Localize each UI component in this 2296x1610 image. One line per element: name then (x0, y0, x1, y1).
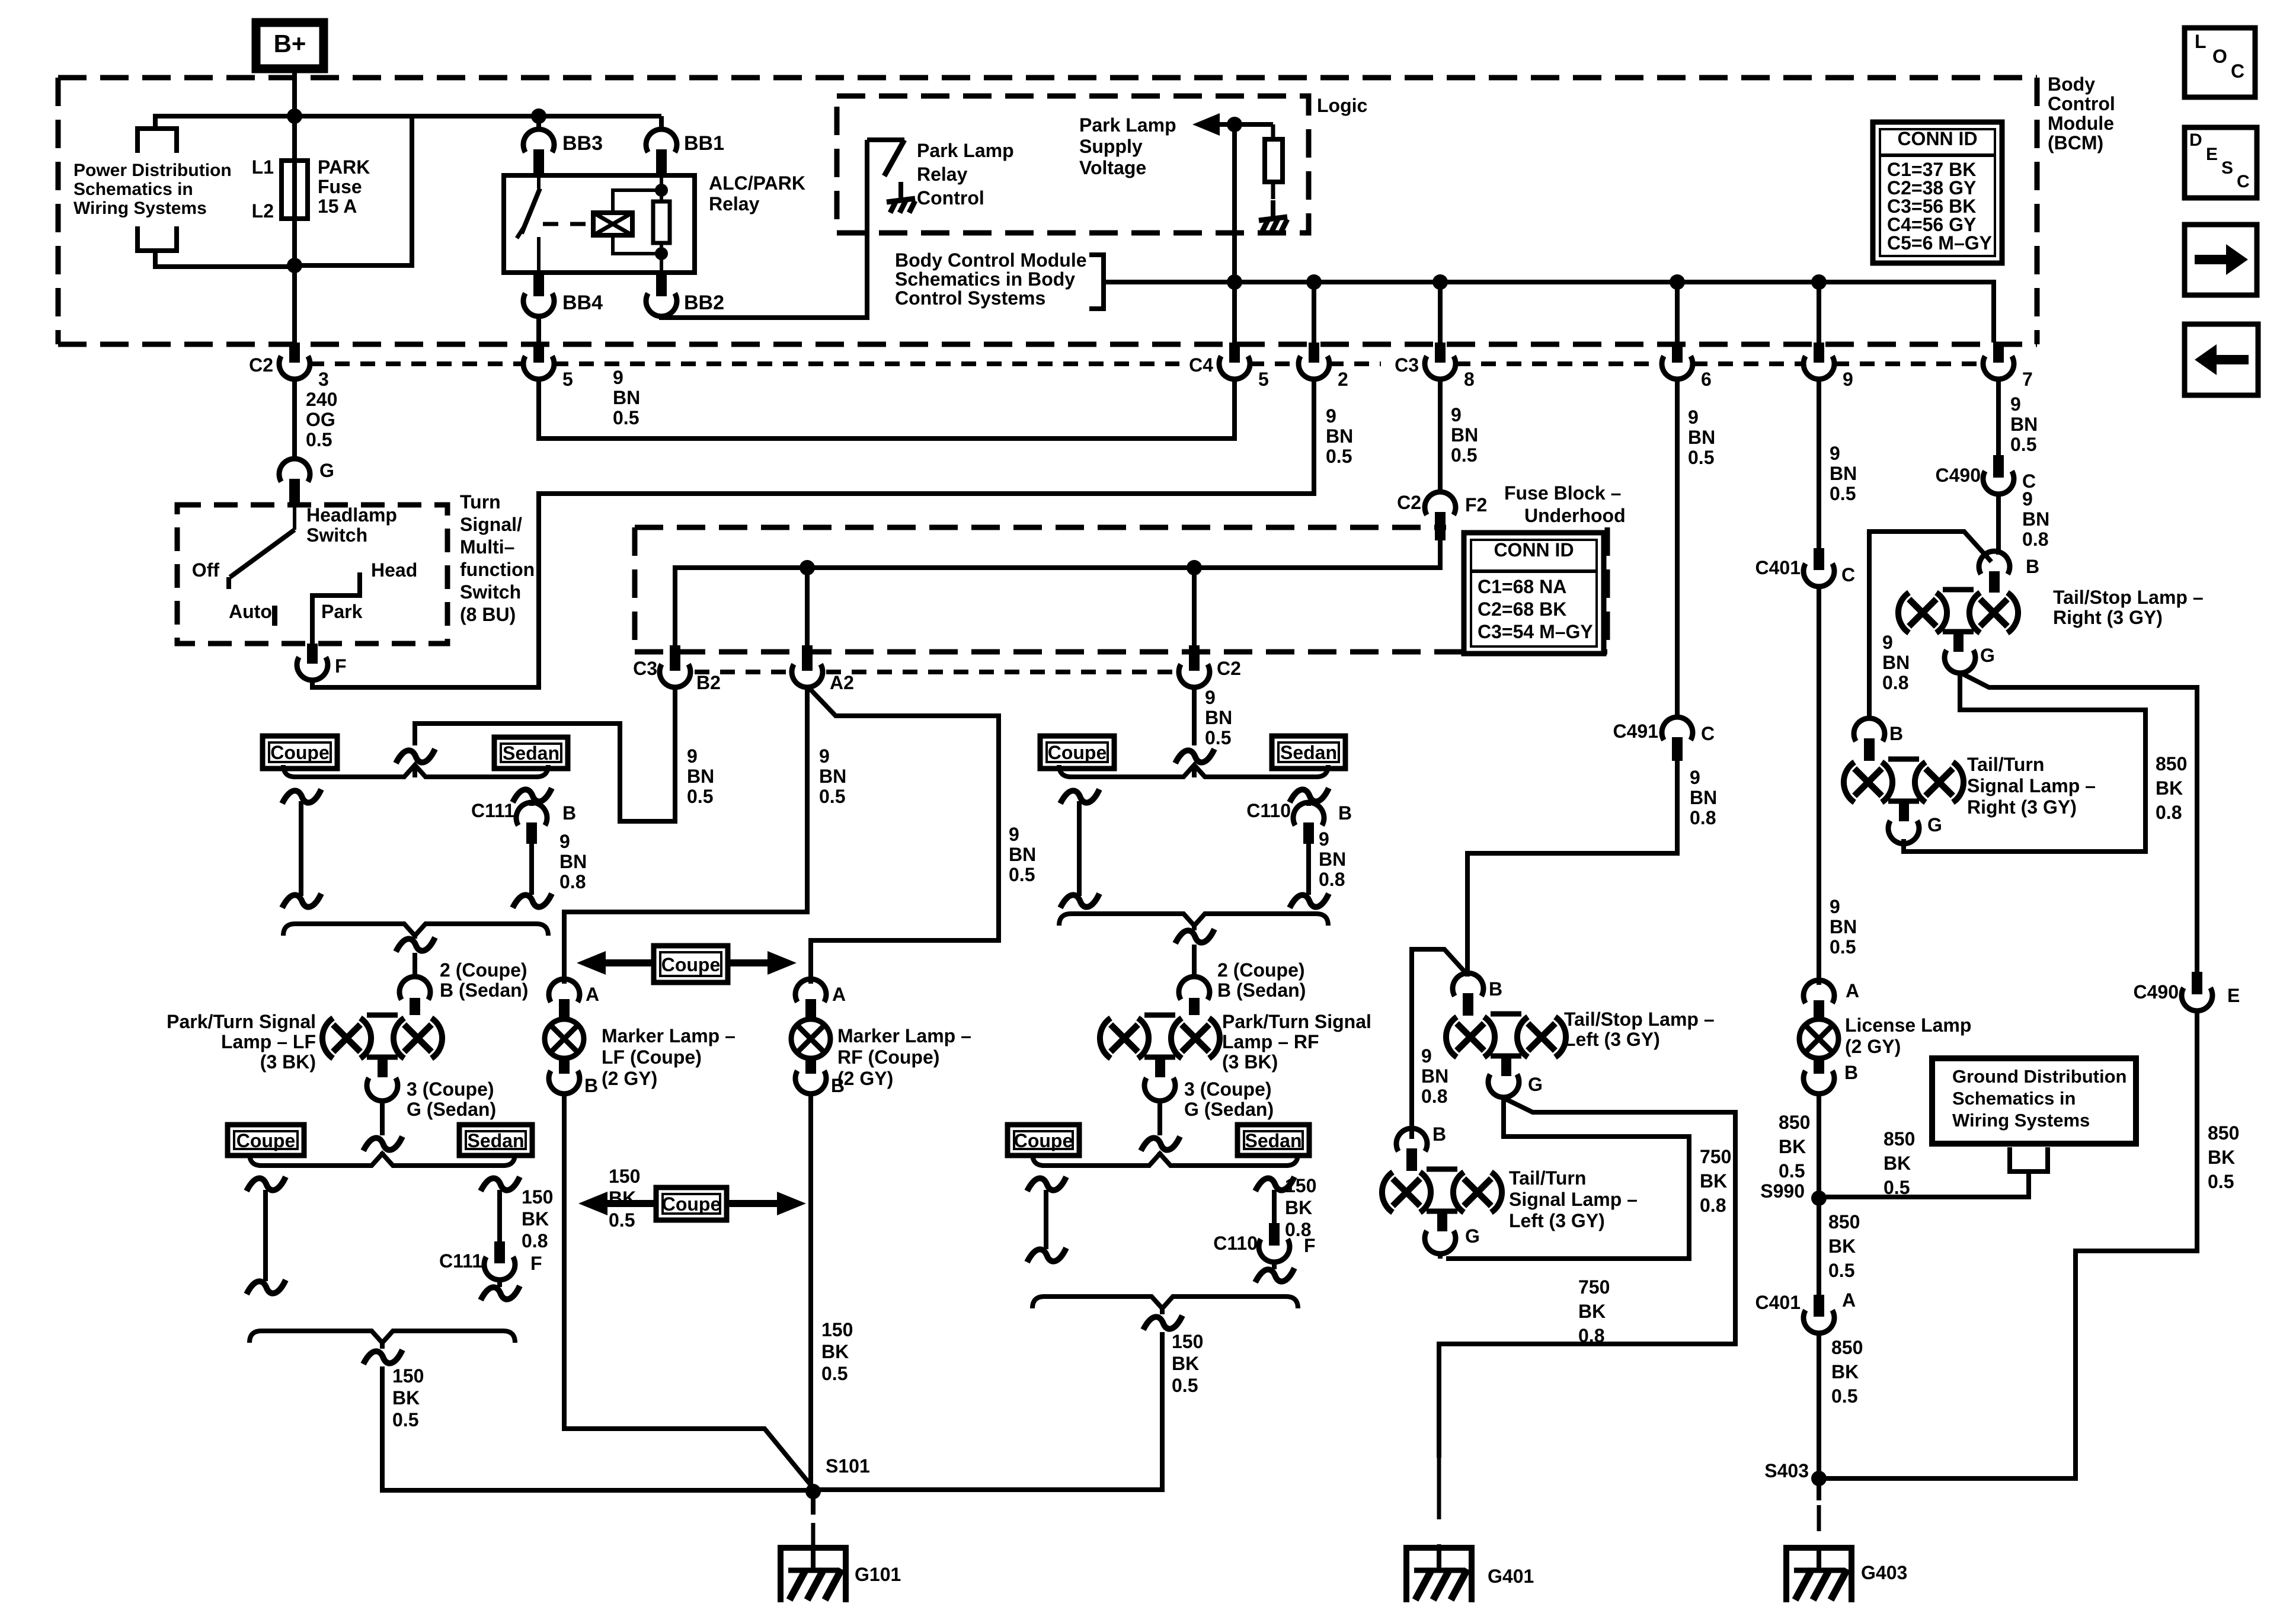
svg-text:B (Sedan): B (Sedan) (1217, 980, 1306, 1001)
svg-text:BN: BN (1205, 707, 1232, 728)
splice S990 (1811, 1190, 1827, 1206)
back arrow box (2185, 324, 2258, 395)
svg-text:0.5: 0.5 (1830, 936, 1856, 958)
wire pin7 to C490 C (1996, 379, 2001, 455)
wire break LF merge (396, 937, 435, 952)
connector A2 (802, 645, 813, 671)
wire B2 to LF group (415, 687, 675, 821)
svg-text:3 (Coupe): 3 (Coupe) (407, 1078, 494, 1100)
connector G park/turn LF (367, 1078, 398, 1101)
svg-text:Ground Distribution: Ground Distribution (1952, 1066, 2126, 1087)
relay coil (bowtie box) (593, 213, 632, 235)
brace LF lower merge (283, 924, 548, 936)
svg-text:function: function (460, 559, 535, 580)
variant box Coupe (LF upper) (263, 736, 337, 769)
svg-text:Park/Turn Signal: Park/Turn Signal (1222, 1011, 1371, 1032)
svg-text:850: 850 (1884, 1128, 1915, 1150)
svg-text:B: B (1889, 723, 1903, 744)
svg-text:BK: BK (2208, 1147, 2235, 1168)
wire pin8 to fuse F2 (1438, 379, 1443, 492)
svg-text:(2 GY): (2 GY) (1845, 1036, 1901, 1057)
power distribution reference bracket (155, 116, 295, 129)
svg-text:BK: BK (1828, 1235, 1856, 1257)
svg-text:Marker Lamp –: Marker Lamp – (602, 1025, 736, 1046)
lamp Tail/Stop Lamp Left (1446, 1017, 1457, 1057)
svg-text:(8 BU): (8 BU) (460, 604, 516, 625)
CONN ID table (fuse block) (1464, 533, 1604, 654)
lamp Park/Turn Signal Lamp LF (322, 1018, 333, 1058)
svg-text:(2 GY): (2 GY) (602, 1068, 657, 1089)
svg-text:8: 8 (1464, 369, 1475, 390)
svg-text:C1=68 NA: C1=68 NA (1478, 576, 1566, 597)
svg-text:9: 9 (613, 367, 623, 388)
svg-text:BN: BN (1882, 652, 1910, 673)
ground drop G403 (1817, 1478, 1821, 1500)
svg-text:B: B (584, 1075, 598, 1096)
connector B tail/stop left (1453, 973, 1483, 996)
svg-text:BN: BN (2010, 414, 2038, 435)
brace RF lower merge (1059, 914, 1328, 926)
variant box Sedan (LF lower) (459, 1125, 532, 1156)
svg-text:Signal/: Signal/ (460, 514, 522, 535)
wire fuse-top to relay feed (295, 114, 412, 119)
junction fuse block C2 (1187, 560, 1202, 575)
ground G101 (781, 1548, 846, 1602)
variant box Coupe (LF lower) (228, 1125, 304, 1156)
svg-text:Headlamp: Headlamp (306, 504, 397, 526)
svg-text:BB2: BB2 (684, 292, 724, 314)
svg-text:BK: BK (1285, 1197, 1312, 1218)
svg-text:Signal Lamp –: Signal Lamp – (1509, 1189, 1638, 1210)
variant box Sedan (RF upper) (1272, 736, 1345, 769)
connector pin 6 (1672, 343, 1683, 363)
junction at fuse top (287, 108, 302, 124)
wire C490 C to tail/stop right B (1996, 494, 2001, 555)
svg-text:0.8: 0.8 (1578, 1325, 1604, 1346)
connector pin 7 (1993, 343, 2004, 363)
svg-text:0.8: 0.8 (1882, 672, 1908, 693)
svg-text:G403: G403 (1861, 1562, 1907, 1583)
ground distribution schematics box (1932, 1058, 2136, 1144)
svg-text:Head: Head (371, 559, 417, 581)
svg-text:G401: G401 (1488, 1566, 1534, 1587)
wire S990 to C401 A (1817, 1198, 1821, 1295)
svg-text:BB1: BB1 (684, 132, 724, 155)
svg-text:750: 750 (1700, 1146, 1731, 1167)
svg-text:Park/Turn Signal: Park/Turn Signal (167, 1011, 316, 1032)
svg-text:Coupe: Coupe (236, 1130, 296, 1151)
svg-text:0.5: 0.5 (2208, 1171, 2234, 1192)
svg-text:CONN ID: CONN ID (1494, 539, 1574, 561)
connector C2 pin 3 (289, 343, 300, 363)
wire break LF feed (396, 749, 435, 763)
svg-text:150: 150 (1285, 1175, 1316, 1196)
headlamp switch dashed box (177, 505, 447, 644)
wire BB2 to park lamp relay control (661, 140, 867, 318)
svg-text:150: 150 (1172, 1331, 1203, 1352)
connector pin 5 (533, 343, 544, 363)
svg-text:O: O (2212, 46, 2227, 67)
wire C401 to license lamp (1817, 587, 1821, 985)
svg-text:BK: BK (392, 1387, 420, 1409)
svg-text:Sedan: Sedan (467, 1130, 524, 1151)
wire C2 to RF group (1192, 687, 1197, 745)
svg-text:G: G (1980, 645, 1995, 666)
connector A license lamp (1803, 980, 1834, 1003)
svg-text:Sedan: Sedan (1245, 1130, 1302, 1151)
svg-text:Module: Module (2048, 113, 2114, 134)
svg-text:BN: BN (819, 766, 846, 787)
svg-text:PARK: PARK (318, 156, 370, 178)
ground G403 (1786, 1548, 1851, 1602)
connector C401 C (1814, 548, 1824, 570)
svg-text:Schematics in: Schematics in (1952, 1088, 2076, 1109)
svg-text:150: 150 (522, 1186, 553, 1208)
brace LF upper split (283, 765, 548, 777)
svg-text:(3 BK): (3 BK) (1222, 1051, 1278, 1073)
variant arrow box Coupe (lower) (656, 1188, 727, 1220)
svg-text:S101: S101 (826, 1455, 870, 1477)
fuse block internal wire (675, 540, 1440, 645)
svg-text:A: A (1842, 1289, 1856, 1311)
CONN ID table (BCM) (1873, 122, 2002, 263)
svg-text:Coupe: Coupe (662, 1193, 721, 1215)
splice S403 (1811, 1471, 1827, 1486)
relay coil loop (613, 190, 661, 213)
fuse block underhood dashed box (635, 525, 1446, 530)
svg-text:Schematics in: Schematics in (73, 180, 193, 199)
wire break RF ground (1143, 1315, 1182, 1330)
svg-text:2 (Coupe): 2 (Coupe) (440, 959, 527, 981)
svg-text:A: A (1846, 980, 1859, 1001)
junction park lamp supply (1227, 117, 1242, 132)
connector G park/turn RF (1144, 1078, 1175, 1101)
svg-text:5: 5 (1258, 369, 1269, 390)
wire marker LF to S101 (564, 1094, 813, 1488)
svg-text:850: 850 (1831, 1337, 1863, 1358)
connector B park/turn RF (1179, 977, 1210, 1000)
svg-text:CONN ID: CONN ID (1897, 128, 1977, 149)
svg-text:BN: BN (2022, 508, 2049, 530)
wire A2 branch to marker RF (810, 689, 999, 984)
svg-text:9: 9 (559, 831, 570, 852)
park/head contact (312, 572, 360, 644)
svg-text:0.5: 0.5 (306, 429, 332, 450)
connector G headlamp switch (279, 459, 310, 482)
svg-text:Supply: Supply (1079, 136, 1143, 157)
svg-text:Tail/Stop Lamp –: Tail/Stop Lamp – (2053, 587, 2204, 608)
headlamp switch blade (293, 505, 296, 530)
svg-text:0.5: 0.5 (1172, 1375, 1198, 1396)
svg-text:BN: BN (687, 766, 714, 787)
junction bus pin8 (1432, 274, 1448, 290)
svg-text:0.5: 0.5 (609, 1209, 635, 1231)
svg-text:RF (Coupe): RF (Coupe) (837, 1046, 939, 1068)
svg-text:850: 850 (2208, 1122, 2239, 1144)
svg-text:F: F (530, 1253, 542, 1274)
relay resistor (660, 175, 663, 201)
svg-text:9: 9 (1421, 1045, 1432, 1067)
svg-text:Park: Park (321, 601, 363, 622)
svg-text:Park Lamp: Park Lamp (917, 140, 1014, 161)
lamp Tail/Stop Lamp Right (1898, 593, 1909, 633)
svg-text:LF (Coupe): LF (Coupe) (602, 1046, 702, 1068)
svg-text:240: 240 (306, 389, 337, 410)
svg-text:150: 150 (392, 1365, 424, 1387)
svg-text:Turn: Turn (460, 491, 501, 513)
BCM internal bus wire (1104, 282, 1994, 343)
svg-text:2: 2 (1338, 369, 1348, 390)
svg-text:G101: G101 (855, 1564, 901, 1585)
svg-text:C2: C2 (249, 354, 273, 376)
svg-text:BK: BK (1779, 1136, 1806, 1157)
svg-text:9: 9 (687, 745, 698, 767)
svg-text:License Lamp: License Lamp (1845, 1014, 1971, 1036)
svg-text:Power Distribution: Power Distribution (73, 161, 232, 180)
svg-text:BN: BN (1830, 463, 1857, 484)
svg-text:Right (3 GY): Right (3 GY) (2053, 607, 2163, 628)
wire RF lamp G down (1157, 1101, 1162, 1135)
svg-text:G: G (319, 460, 334, 481)
brace RF bottom merge (1032, 1297, 1298, 1308)
svg-text:Wiring Systems: Wiring Systems (1952, 1110, 2090, 1131)
svg-text:9: 9 (1319, 828, 1329, 850)
connector A marker RF (795, 979, 826, 1002)
lamp Tail/Turn Signal Lamp Left (1382, 1172, 1393, 1212)
svg-text:Coupe: Coupe (1014, 1130, 1073, 1151)
svg-text:Tail/Turn: Tail/Turn (1967, 754, 2044, 775)
arrow park lamp supply (1192, 113, 1220, 136)
svg-text:B: B (1489, 978, 1502, 1000)
svg-text:C110: C110 (1246, 800, 1291, 821)
connector C490 C (1993, 455, 2004, 478)
svg-text:L2: L2 (252, 200, 274, 222)
svg-text:150: 150 (821, 1319, 853, 1340)
svg-text:BK: BK (1884, 1153, 1911, 1174)
svg-text:9: 9 (1009, 824, 1019, 845)
svg-text:0.5: 0.5 (392, 1409, 418, 1430)
svg-text:A: A (832, 984, 846, 1005)
svg-text:C2=68 BK: C2=68 BK (1478, 598, 1566, 620)
BCM connector row dotted line (309, 361, 524, 366)
svg-text:BB4: BB4 (562, 292, 603, 314)
wire RF merged to S101 (813, 1332, 1162, 1490)
svg-text:0.8: 0.8 (2156, 802, 2182, 823)
svg-text:Off: Off (192, 559, 220, 581)
svg-text:Left (3 GY): Left (3 GY) (1564, 1029, 1660, 1050)
variant box Sedan (LF upper) (494, 737, 568, 769)
svg-text:9: 9 (819, 745, 830, 767)
svg-text:BK: BK (522, 1208, 549, 1230)
svg-text:0.5: 0.5 (1831, 1385, 1857, 1407)
svg-text:0.8: 0.8 (559, 871, 586, 892)
park lamp supply voltage node (1232, 124, 1237, 343)
wire pin6 to C491 (1675, 379, 1680, 718)
connector C4 pin 5 (1229, 343, 1240, 363)
svg-text:B+: B+ (274, 30, 306, 57)
svg-text:S: S (2221, 158, 2233, 178)
svg-text:850: 850 (1779, 1112, 1810, 1133)
svg-text:BN: BN (1009, 844, 1036, 865)
svg-text:BK: BK (1578, 1301, 1606, 1322)
svg-text:Voltage: Voltage (1079, 157, 1146, 178)
svg-text:G: G (1465, 1225, 1480, 1247)
connector C490 E (2192, 972, 2202, 994)
svg-text:0.8: 0.8 (1319, 869, 1345, 890)
connector C2 F2 fuse block (1425, 492, 1456, 515)
svg-text:D: D (2189, 130, 2202, 150)
coupe stub LF lower (247, 1177, 286, 1191)
wire break RF feed (1175, 749, 1214, 763)
connector B tail/stop right (1979, 551, 2010, 574)
connector G tail/turn right (1888, 821, 1919, 844)
BCM logic ground (supply voltage) (1271, 200, 1275, 217)
ground distribution bracket to S990 (2010, 1147, 2048, 1172)
wire marker RF to S101 (808, 1094, 813, 1491)
connector B marker RF (805, 1058, 816, 1074)
connector B tail/turn right (1854, 718, 1885, 741)
resistor in BCM logic (1271, 124, 1275, 139)
svg-text:Signal Lamp –: Signal Lamp – (1967, 775, 2096, 796)
connector B tail/turn left (1396, 1128, 1427, 1151)
connector A marker LF (549, 979, 580, 1002)
svg-text:Marker Lamp –: Marker Lamp – (837, 1025, 971, 1046)
brace LF bottom merge (250, 1331, 515, 1343)
svg-text:9: 9 (1830, 443, 1840, 464)
svg-text:0.5: 0.5 (687, 786, 713, 807)
branch to tail/turn left B (1412, 949, 1467, 1139)
svg-text:(BCM): (BCM) (2048, 132, 2103, 153)
connector BB2 (656, 273, 667, 296)
svg-text:Tail/Stop Lamp –: Tail/Stop Lamp – (1564, 1009, 1715, 1030)
svg-text:C490: C490 (2134, 981, 2179, 1003)
wire break LF ground (363, 1350, 402, 1364)
svg-text:(3 BK): (3 BK) (260, 1051, 316, 1073)
svg-text:0.5: 0.5 (1205, 727, 1231, 748)
svg-text:Coupe: Coupe (1048, 742, 1107, 763)
svg-text:9: 9 (1326, 405, 1336, 427)
coupe stub RF lower (1027, 1177, 1066, 1191)
wire pin2 down (1312, 379, 1316, 496)
relay switch contact (537, 175, 541, 188)
variant box Sedan (RF lower) (1237, 1125, 1309, 1156)
junction bus pin6 (1670, 274, 1685, 290)
svg-text:0.5: 0.5 (1830, 483, 1856, 504)
svg-text:C3: C3 (1395, 354, 1419, 376)
svg-text:A2: A2 (830, 672, 854, 693)
svg-text:G (Sedan): G (Sedan) (1184, 1099, 1274, 1120)
svg-text:0.5: 0.5 (2010, 434, 2036, 455)
svg-text:BN: BN (1830, 916, 1857, 937)
svg-text:S403: S403 (1764, 1460, 1809, 1481)
svg-text:B (Sedan): B (Sedan) (440, 980, 528, 1001)
svg-text:Left (3 GY): Left (3 GY) (1509, 1210, 1605, 1231)
junction at fuse bottom (287, 258, 302, 273)
svg-text:0.5: 0.5 (1828, 1260, 1854, 1281)
svg-text:Switch: Switch (460, 581, 521, 603)
junction bus C4-5 (1227, 274, 1242, 290)
svg-text:C3: C3 (633, 658, 657, 679)
svg-text:BB3: BB3 (562, 132, 603, 155)
junction fuse block A2 (800, 560, 815, 575)
svg-text:BN: BN (1326, 425, 1353, 447)
ground G401 (1406, 1548, 1472, 1602)
svg-text:9: 9 (1688, 406, 1699, 428)
svg-text:Multi–: Multi– (460, 536, 514, 558)
ground drop G401 (1437, 1458, 1441, 1493)
brace RF lower split (1032, 1154, 1298, 1166)
svg-text:Switch: Switch (306, 524, 367, 546)
svg-text:9: 9 (1451, 404, 1462, 425)
lamp Park/Turn Signal Lamp RF (1100, 1018, 1111, 1058)
connector C491 C (1662, 717, 1693, 740)
svg-text:C3=54 M–GY: C3=54 M–GY (1478, 621, 1593, 642)
sedan branch C110 B (1290, 788, 1329, 802)
Logic dashed box (837, 96, 1309, 233)
svg-text:C4: C4 (1189, 354, 1213, 376)
svg-text:9: 9 (1690, 767, 1700, 788)
connector C2 (turn signal feed) (1189, 645, 1200, 671)
svg-text:Body Control Module: Body Control Module (895, 249, 1087, 271)
wire tail/stop right G paths (1961, 673, 2197, 972)
svg-text:750: 750 (1578, 1276, 1610, 1298)
svg-text:C5=6 M–GY: C5=6 M–GY (1887, 232, 1992, 254)
svg-text:G: G (1927, 814, 1942, 836)
variant box Coupe (RF upper) (1040, 736, 1114, 769)
svg-text:(2 GY): (2 GY) (837, 1068, 893, 1089)
connector pin 9 (1814, 343, 1824, 363)
svg-text:0.8: 0.8 (1700, 1195, 1726, 1216)
svg-text:Lamp – LF: Lamp – LF (221, 1031, 316, 1052)
branch to tail/turn right B (1869, 532, 1991, 721)
connector B license lamp (1814, 1058, 1824, 1074)
svg-text:15 A: 15 A (318, 196, 357, 217)
BCM outer dashed box (58, 75, 2037, 81)
svg-text:E: E (2206, 145, 2218, 164)
coupe span arrow upper (600, 959, 788, 966)
connector BB4 (533, 273, 544, 296)
svg-text:Body: Body (2048, 73, 2095, 95)
svg-text:0.8: 0.8 (522, 1230, 548, 1251)
wire B+ to C2 pin 3 (292, 69, 297, 343)
junction bus pin9 (1811, 274, 1827, 290)
svg-text:0.5: 0.5 (821, 1363, 848, 1384)
junction bus pin2 (1306, 274, 1322, 290)
svg-text:Sedan: Sedan (1280, 742, 1337, 763)
wire F to pin2 (park lamp feed) (312, 494, 1314, 687)
svg-text:0.8: 0.8 (2022, 529, 2048, 550)
svg-text:G: G (1528, 1074, 1543, 1095)
wire C490 E to S403 (1819, 1011, 2197, 1478)
svg-text:L: L (2195, 31, 2207, 52)
svg-text:Fuse Block –: Fuse Block – (1504, 482, 1621, 504)
sedan branch C111 F (481, 1177, 520, 1191)
connector F headlamp switch (307, 644, 318, 664)
svg-text:Relay: Relay (917, 164, 968, 185)
svg-text:F2: F2 (1465, 494, 1487, 516)
wire pin3 to headlamp switch (292, 379, 297, 459)
connector BB1 (646, 129, 677, 152)
park lamp relay control driver (867, 137, 904, 142)
wire tail/turn left G (1438, 1254, 1443, 1259)
svg-text:C: C (1841, 564, 1855, 585)
wire LF merged to S101 (382, 1366, 813, 1490)
lamp Tail/Turn Signal Lamp Right (1844, 762, 1854, 802)
svg-text:5: 5 (562, 369, 573, 390)
svg-text:B: B (1844, 1062, 1858, 1083)
svg-text:F: F (335, 655, 347, 677)
svg-text:6: 6 (1701, 369, 1712, 390)
